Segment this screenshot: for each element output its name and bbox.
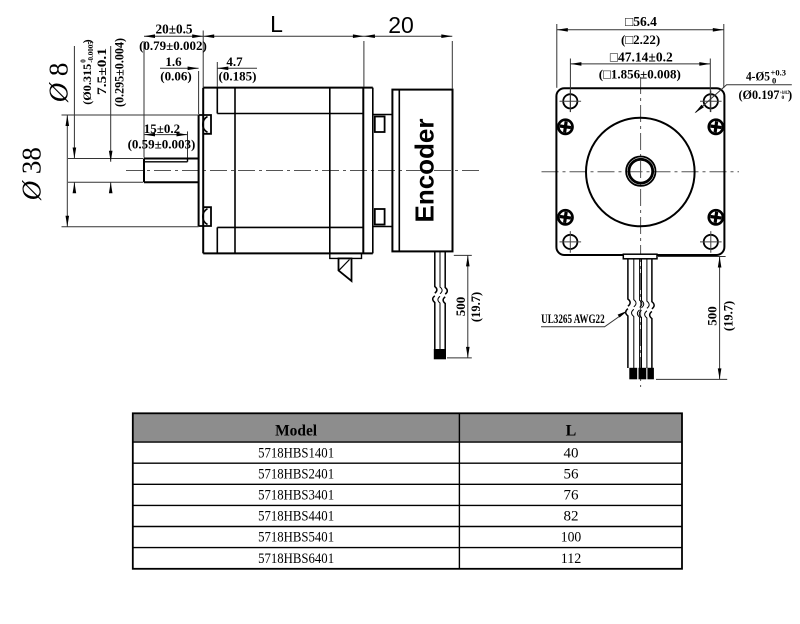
svg-text:7.5±0.1: 7.5±0.1 — [95, 48, 109, 95]
svg-text:□56.4: □56.4 — [625, 14, 657, 29]
ext line encoder right top — [451, 41, 453, 89]
front connector 2 — [639, 368, 647, 380]
svg-text:□47.14±0.2: □47.14±0.2 — [610, 50, 673, 65]
front wire line 4 — [639, 259, 644, 368]
svg-text:5718HBS5401: 5718HBS5401 — [258, 530, 334, 546]
boss bottom arc — [203, 209, 208, 225]
pilot boss circle — [586, 118, 695, 227]
svg-text:4.7: 4.7 — [226, 54, 243, 69]
svg-text:500: 500 — [705, 306, 720, 326]
svg-text:(0.295±0.004): (0.295±0.004) — [113, 38, 127, 107]
svg-text:(Ø0.315: (Ø0.315 — [82, 64, 94, 105]
dim line 47.14 — [570, 63, 710, 65]
shaft circle — [629, 159, 653, 183]
svg-text:Model: Model — [275, 422, 318, 439]
bottom lip — [330, 253, 362, 258]
label dia8 inch — [80, 39, 96, 105]
arrow 1.6 — [188, 67, 199, 71]
front 500 ext bottom — [656, 378, 727, 380]
arrow dia8 up — [73, 182, 77, 193]
front 500 arrow down — [718, 368, 722, 379]
encoder neck bottom tab — [375, 209, 385, 225]
shaft — [144, 159, 199, 183]
boss top arc — [203, 117, 208, 133]
encoder wire left — [433, 251, 437, 349]
rear plate edge — [372, 88, 374, 254]
svg-text:40: 40 — [564, 445, 579, 461]
encoder cable connector — [434, 349, 446, 359]
side 500 dim extension bottom — [447, 357, 472, 359]
svg-text:100: 100 — [561, 530, 582, 546]
dim line 56.4 — [557, 29, 724, 31]
arrow 15 right — [177, 133, 188, 137]
dim line dia8 — [73, 46, 75, 192]
side 500 dim arrow down — [466, 347, 470, 358]
hole cross bottom-left — [560, 231, 582, 253]
arrow 56.4 right — [713, 28, 724, 32]
stator bottom line — [217, 226, 363, 228]
svg-text:(0.59±0.003): (0.59±0.003) — [128, 137, 196, 152]
arrow 7.5 up — [109, 182, 113, 193]
ext 56.4 right — [723, 24, 725, 88]
arrow 56.4 left — [557, 28, 568, 32]
front wire line 5 — [645, 259, 650, 368]
boss face — [198, 115, 200, 226]
arrow 20 left — [144, 34, 155, 38]
ext line flange face top — [202, 31, 204, 88]
ext line boss face — [198, 71, 200, 114]
UL leader shoulder — [541, 312, 626, 327]
svg-text:UL3265 AWG22: UL3265 AWG22 — [541, 311, 605, 326]
table header background — [133, 413, 682, 442]
hole cross top-left — [560, 91, 582, 113]
ext line boss top — [62, 114, 199, 116]
svg-text:5718HBS3401: 5718HBS3401 — [258, 488, 334, 504]
arrow L right — [353, 34, 364, 38]
body bottom edge — [203, 252, 373, 254]
hole bottom-right — [704, 235, 718, 249]
ext line flange back — [216, 62, 218, 87]
boss bottom edge — [199, 207, 211, 226]
svg-text:500: 500 — [453, 297, 468, 317]
table row line 4 — [133, 526, 682, 528]
motor rear face — [362, 88, 364, 254]
arrow 4.7 — [217, 67, 228, 71]
svg-text:(0.185): (0.185) — [219, 68, 257, 83]
svg-text:L: L — [566, 422, 577, 439]
svg-text:): ) — [788, 88, 792, 102]
screw bottom-left — [558, 210, 572, 224]
front 500 ext top — [658, 256, 726, 258]
arrow dia38 up — [66, 115, 70, 126]
front cap line — [234, 88, 236, 254]
svg-text:76: 76 — [564, 488, 580, 504]
svg-text:(0.06): (0.06) — [160, 68, 191, 83]
table column divider — [458, 413, 460, 569]
arrow 7.5 down — [109, 151, 113, 162]
encoder wire right — [443, 251, 447, 349]
svg-text:Encoder: Encoder — [410, 118, 440, 222]
svg-text:(19.7): (19.7) — [469, 292, 483, 322]
encoder neck bottom line — [373, 226, 393, 228]
ext line shaft top — [68, 158, 143, 160]
arrow 20enc right — [441, 34, 452, 38]
svg-text:4-Ø5: 4-Ø5 — [746, 69, 770, 84]
table outer border — [133, 413, 682, 569]
arrow 47.14 right — [699, 62, 710, 66]
table row line 2 — [133, 483, 682, 485]
screw top-left — [558, 120, 572, 134]
SIDE VIEW — [126, 88, 482, 281]
hole top-right — [704, 94, 718, 108]
side 500 dim arrow up — [466, 255, 470, 266]
encoder neck top tab — [375, 117, 385, 133]
encoder housing — [392, 90, 452, 252]
shaft hub circle — [626, 157, 655, 186]
dim line 7.5 — [110, 46, 112, 192]
front wire line 2 — [632, 259, 637, 368]
dim line 4.7 — [217, 67, 257, 69]
svg-text:56: 56 — [564, 466, 580, 482]
svg-text:5718HBS4401: 5718HBS4401 — [258, 509, 334, 525]
ext line boss bottom — [62, 226, 199, 228]
table row line 5 — [133, 547, 682, 549]
svg-text:5718HBS2401: 5718HBS2401 — [258, 466, 334, 482]
svg-text:15±0.2: 15±0.2 — [144, 121, 180, 136]
encoder housing inner line — [398, 90, 400, 252]
front wire line 6 — [650, 259, 655, 368]
table header line — [133, 441, 682, 443]
svg-text:0: 0 — [772, 76, 776, 86]
center line vertical — [640, 77, 642, 387]
dia5 leader arrow — [695, 105, 704, 114]
screw bottom-right — [709, 210, 723, 224]
dim line 15 — [144, 134, 188, 136]
svg-text:112: 112 — [561, 551, 582, 567]
svg-text:5718HBS1401: 5718HBS1401 — [258, 445, 334, 461]
arrow 20enc left — [364, 34, 375, 38]
side 500 dim line — [467, 255, 469, 358]
svg-text:1.6: 1.6 — [165, 54, 182, 69]
front wire line 3 — [637, 259, 642, 368]
svg-text:(Ø0.197: (Ø0.197 — [739, 88, 780, 102]
svg-text:(□1.856±0.008): (□1.856±0.008) — [599, 67, 681, 82]
arrow 20 right — [192, 34, 203, 38]
cable gland — [339, 258, 352, 281]
ext 47.14 left — [569, 59, 571, 113]
side 500 dim extension top — [454, 254, 472, 256]
svg-text:(□2.22): (□2.22) — [621, 32, 660, 47]
ext line flat end — [187, 131, 189, 157]
cable gland crease — [339, 260, 350, 271]
encoder wire middle — [438, 251, 442, 349]
ext 56.4 left — [556, 24, 558, 88]
flange back edge bottom — [216, 227, 218, 253]
arrow 15 left — [144, 133, 155, 137]
center line horizontal — [542, 171, 740, 173]
dim line dia38 — [66, 115, 68, 227]
svg-text:20: 20 — [388, 12, 414, 38]
svg-text:(0.79±0.002): (0.79±0.002) — [139, 38, 207, 53]
front wire line 1 — [626, 259, 631, 368]
svg-text:20±0.5: 20±0.5 — [156, 21, 193, 36]
body top edge — [203, 87, 373, 89]
svg-text:L: L — [270, 11, 283, 37]
ext line shaft tip — [143, 41, 145, 158]
svg-text:5718HBS6401: 5718HBS6401 — [258, 551, 334, 567]
cable strain relief — [623, 254, 657, 259]
hole bottom-left — [563, 235, 577, 249]
svg-text:): ) — [82, 39, 94, 43]
front connector 1 — [629, 368, 637, 380]
front 500 arrow up — [718, 257, 722, 268]
table row line 1 — [133, 462, 682, 464]
arrow 47.14 left — [570, 62, 581, 66]
screw top-right — [709, 120, 723, 134]
arrow L left — [203, 34, 214, 38]
flange front face — [202, 88, 204, 254]
dim line 1.6 — [160, 67, 199, 69]
wire: center line side view — [126, 170, 482, 172]
UL leader arrow — [618, 311, 628, 318]
front connector 3 — [647, 368, 654, 380]
encoder neck top line — [373, 114, 393, 116]
ext line rear face top — [363, 41, 365, 87]
flange back edge top — [216, 88, 218, 114]
boss top edge — [199, 115, 211, 134]
svg-text:(19.7): (19.7) — [722, 301, 736, 331]
rear cap line — [329, 88, 331, 254]
front 500 dim line — [719, 257, 721, 380]
motor flange square — [556, 88, 724, 255]
stator top line — [217, 113, 363, 115]
svg-text:Ø 38: Ø 38 — [17, 147, 47, 201]
hole cross top-right — [700, 91, 722, 113]
top dim line — [144, 35, 452, 37]
svg-text:82: 82 — [564, 509, 579, 525]
svg-text:0: 0 — [782, 95, 785, 101]
ext line shaft bottom — [68, 181, 143, 183]
hole cross bottom-right — [700, 231, 722, 253]
ext 47.14 right — [709, 59, 711, 113]
shaft flat — [144, 159, 188, 162]
dia5 leader line — [696, 85, 792, 113]
arrow dia38 down — [66, 216, 70, 227]
arrow dia8 down — [73, 148, 77, 159]
svg-text:Ø 8: Ø 8 — [44, 63, 74, 104]
table row line 3 — [133, 504, 682, 506]
hole top-left — [563, 94, 577, 108]
